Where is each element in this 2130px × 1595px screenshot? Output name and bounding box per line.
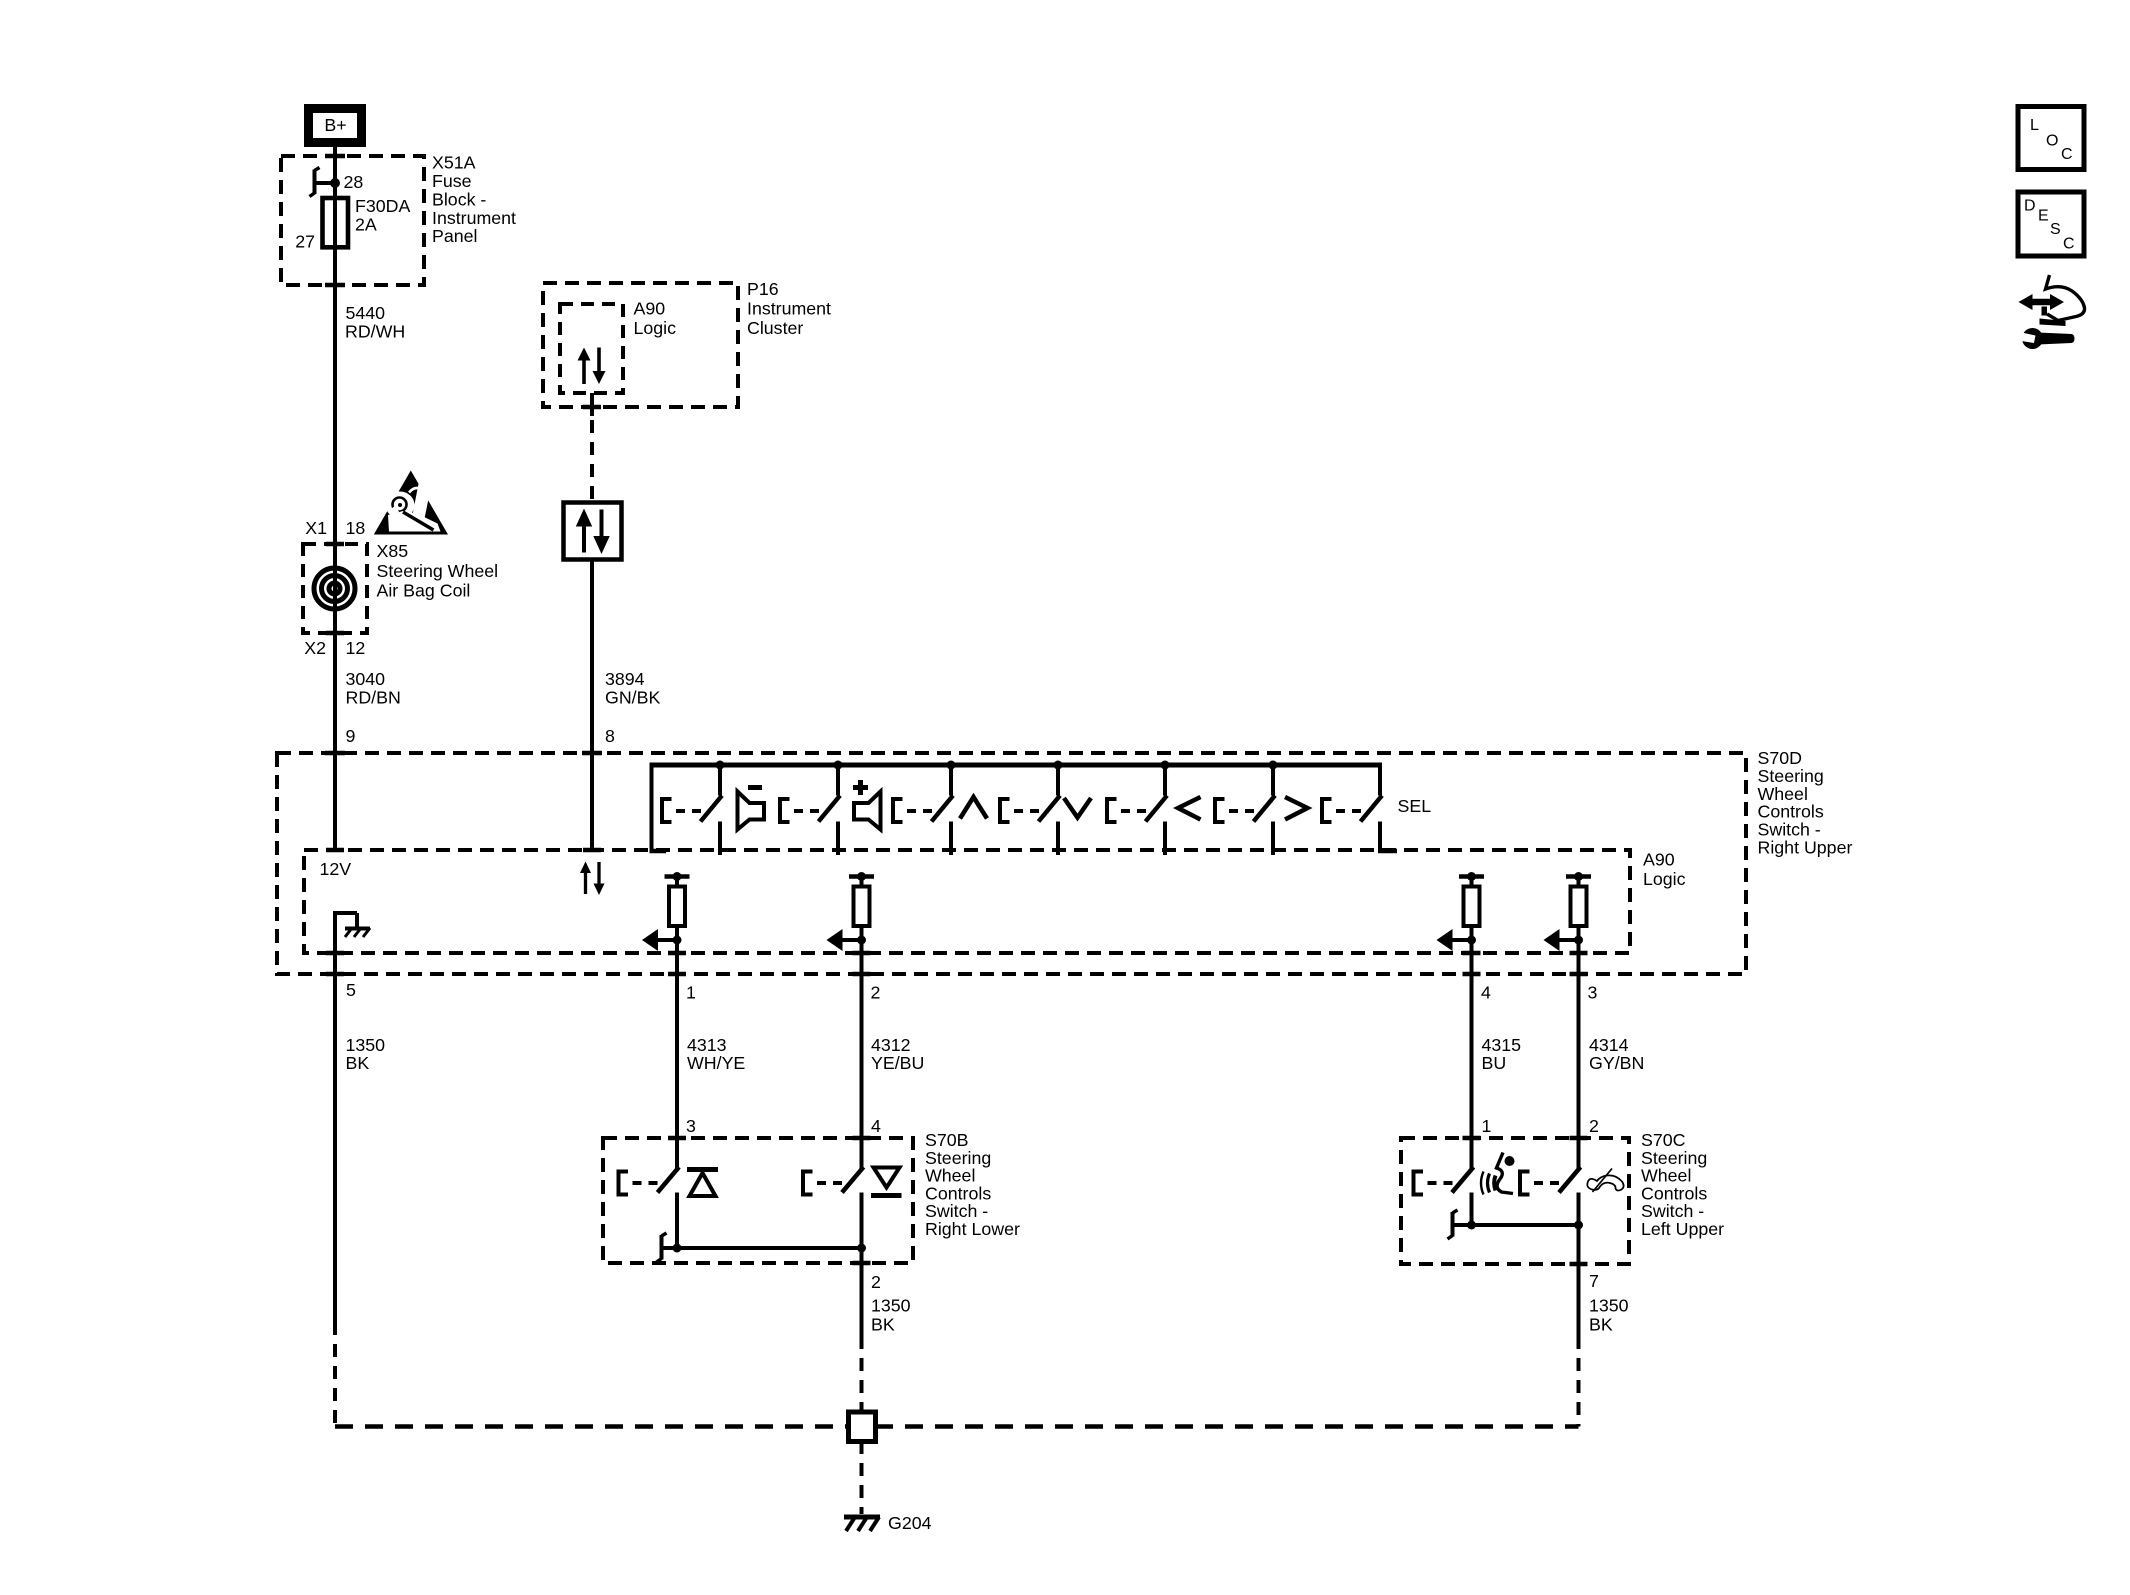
junction dot S70B right [857,1244,866,1253]
B+ terminal [309,109,362,143]
wire 5440 RD/WH label [345,303,405,341]
wire pin2 down to S70B [860,953,864,1138]
pin tick on P16 bottom [583,405,601,410]
pin tick 28 top [325,154,345,159]
pin 2 tick S70B bottom [853,1261,871,1266]
svg-text:C: C [2061,146,2073,163]
svg-text:8: 8 [605,726,615,746]
P16 instrument cluster dashed box [543,283,738,407]
S70B internal common wire [660,1246,862,1250]
svg-text:Steering: Steering [1758,766,1824,786]
pin 2 tick S70C top [1570,1136,1588,1141]
svg-text:12: 12 [346,638,366,658]
phone end icon [1587,1169,1623,1193]
wire 1350 BK label middle [871,1296,911,1335]
switch S70D SEL [1322,796,1382,823]
speaker icon right [854,792,881,830]
pin 4 tick at S70D bottom [1463,972,1481,977]
svg-text:A90: A90 [1643,850,1675,870]
wire 4312 YE/BU label [871,1035,924,1073]
node dot sw2 [834,761,843,770]
wire-end tick at A90 top pin8 [583,848,601,853]
ground distribution dashed bus [335,1424,1579,1429]
fuse F30DA [323,198,349,247]
wire 3894 down to S70D [590,560,594,850]
node dot sw1 [716,761,725,770]
svg-text:18: 18 [346,518,366,538]
svg-text:5440: 5440 [346,303,386,323]
pin tick 27 bottom [325,283,345,288]
A90 logic label right [1643,850,1686,890]
junction dot S70C left [1467,1221,1476,1230]
svg-text:B+: B+ [324,115,346,135]
speaker icon left [738,792,765,830]
wire pin1 down to S70B [675,953,679,1138]
svg-text:F30DA: F30DA [355,196,410,216]
svg-text:9: 9 [346,726,356,746]
svg-text:28: 28 [344,172,364,192]
wire pin5 down [333,974,337,1322]
svg-text:3: 3 [1588,983,1598,1003]
svg-text:Logic: Logic [1643,869,1686,889]
A90 logic inner dashed box [304,850,1630,953]
pullup resistor column 2 [827,872,875,953]
svg-text:O: O [2046,133,2058,150]
bus tap hook S70B [660,1235,664,1260]
S70D outer dashed box [277,753,1746,974]
switch S70D right [1215,765,1275,855]
svg-text:4312: 4312 [871,1035,911,1055]
pin 5 tick at S70D bottom [326,972,344,977]
voice recognition icon [1481,1153,1515,1195]
pin 1 tick at S70D bottom [668,972,686,977]
pin tick wire3 at A90 bottom [1570,951,1588,956]
svg-text:4: 4 [871,1116,881,1136]
wire 1350 BK label left [346,1035,386,1073]
pin tick wire4 at A90 bottom [1463,951,1481,956]
pin 3 tick at S70D bottom [1570,972,1588,977]
svg-text:C: C [2063,236,2075,253]
volume minus icon [748,785,762,790]
wire 4313 WH/YE label [687,1035,745,1073]
svg-text:X51A: X51A [432,153,476,173]
switch S70D volume-up [780,765,840,855]
internal chassis ground stub 12V [335,911,370,974]
svg-text:GY/BN: GY/BN [1589,1053,1644,1073]
splice box [849,1412,876,1442]
svg-text:Right Lower: Right Lower [925,1219,1020,1239]
pin tick 8 on S70D top [582,751,602,756]
pullup resistor column 4 [1544,872,1592,953]
svg-text:Left Upper: Left Upper [1641,1219,1724,1239]
S70D label [1758,748,1853,858]
svg-text:WH/YE: WH/YE [687,1053,745,1073]
svg-text:5: 5 [346,980,356,1000]
svg-text:YE/BU: YE/BU [871,1053,924,1073]
wire 3894 GN/BK label [605,669,660,707]
S70C label [1641,1130,1724,1239]
bus tap hook at node 28 [313,170,317,195]
wire 3040 RD/BN label [346,669,401,707]
wire pin2 out of S70B [860,1248,864,1336]
P16 label [747,279,831,338]
chevron left icon [1178,797,1201,820]
svg-text:27: 27 [295,232,315,252]
svg-text:X85: X85 [377,541,409,561]
svg-text:D: D [2024,198,2036,215]
dashed wire to splice [860,1336,864,1412]
svg-text:BK: BK [871,1315,895,1335]
junction dot S70B left [673,1244,682,1253]
up-down arrows in P16 A90 [578,348,606,385]
svg-text:2: 2 [1589,1116,1599,1136]
svg-text:Controls: Controls [1758,802,1824,822]
serial data box with up-down arrows [564,503,622,560]
svg-text:4: 4 [1481,983,1491,1003]
small up-down arrows at pin 8 [580,862,605,896]
svg-text:2A: 2A [355,214,377,234]
svg-text:Instrument: Instrument [747,298,831,318]
pin 1 tick S70C top [1463,1136,1481,1141]
node dot sw3 [947,761,956,770]
bus left bracket wire [650,763,654,852]
dashed wire to G204 [860,1441,864,1514]
pin 12 tick X85 bottom [326,631,344,636]
fuse block X51A dashed box [281,156,424,285]
bus tap hook S70C [1451,1212,1455,1237]
wire-end tick 12V at A90 top [326,848,344,853]
switch S70D left [1107,765,1167,855]
S70C internal common wire [1451,1223,1579,1227]
svg-text:A90: A90 [634,298,666,318]
svg-text:X2: X2 [304,638,326,658]
svg-text:1: 1 [686,983,696,1003]
node dot sw6 [1269,761,1278,770]
switch S70C voice [1414,1138,1474,1225]
pin tick wire2 at A90 bottom [853,951,871,956]
svg-text:Fuse: Fuse [432,171,472,191]
svg-text:1: 1 [1482,1116,1492,1136]
svg-text:RD/WH: RD/WH [345,321,405,341]
pin 18 tick X85 top [326,542,344,547]
pullup resistor column 1 [642,872,690,953]
service tool icon [2019,275,2085,349]
pin tick wire5 at A90 bottom [326,951,344,956]
pin tick 9 on S70D top [325,751,345,756]
pin 2 tick at S70D bottom [853,972,871,977]
svg-text:4313: 4313 [687,1035,727,1055]
svg-text:GN/BK: GN/BK [605,687,660,707]
S70C dashed box [1401,1138,1629,1264]
dashed wire P16 to serial box [590,420,594,502]
svg-text:BU: BU [1482,1053,1507,1073]
svg-text:Instrument: Instrument [432,208,516,228]
dashed wire to ground bus right [1577,1336,1581,1427]
pullup resistor column 3 [1437,872,1485,953]
svg-text:Cluster: Cluster [747,318,803,338]
bus right bracket wire [1378,763,1382,796]
wire pin4 down to S70C [1470,953,1474,1138]
svg-text:BK: BK [346,1053,370,1073]
svg-text:Right Upper: Right Upper [1758,838,1853,858]
svg-text:Air Bag Coil: Air Bag Coil [377,580,471,600]
svg-text:4315: 4315 [1482,1035,1522,1055]
S70B dashed box [603,1138,913,1263]
A90 logic dashed box in P16 [560,304,623,393]
svg-text:Steering Wheel: Steering Wheel [377,561,499,581]
X51A label [432,153,516,247]
svg-text:E: E [2038,208,2049,225]
S70B label [925,1130,1020,1239]
switch S70D seek-down [1000,765,1060,855]
pin 3 tick S70B top [668,1136,686,1141]
wire pin3 down to S70C [1577,953,1581,1138]
pin tick wire1 at A90 bottom [668,951,686,956]
svg-text:4314: 4314 [1589,1035,1629,1055]
node dot sw4 [1054,761,1063,770]
pin 7 tick S70C bottom [1570,1262,1588,1267]
wire 4314 GY/BN label [1589,1035,1644,1073]
pin 4 tick S70B top [853,1136,871,1141]
svg-text:3: 3 [686,1116,696,1136]
wire pin7 out of S70C [1577,1225,1581,1336]
svg-text:3040: 3040 [346,669,386,689]
dashed wire pin5 to ground bus [333,1322,337,1427]
wire through coil [333,633,337,851]
A90 logic label [634,298,677,338]
svg-text:X1: X1 [305,518,327,538]
svg-text:Switch -: Switch - [1758,820,1821,840]
svg-text:RD/BN: RD/BN [346,687,401,707]
chevron up icon [960,797,987,819]
coil X85 (clockspring) [314,568,355,609]
svg-text:BK: BK [1589,1315,1613,1335]
svg-text:2: 2 [871,983,881,1003]
wire 1350 BK label right [1589,1296,1629,1335]
switch S70B seek-up [619,1138,680,1248]
svg-text:S: S [2050,221,2061,238]
seek down icon [871,1168,902,1196]
svg-text:Panel: Panel [432,226,477,246]
wire B+ to fuse block and down to X85 [333,147,337,633]
svg-text:1350: 1350 [346,1035,386,1055]
ground G204 [844,1517,880,1531]
wire stub below P16 A90 [590,393,594,416]
chevron right icon [1285,797,1308,820]
svg-text:1350: 1350 [1589,1296,1629,1316]
svg-text:SEL: SEL [1398,796,1432,816]
switch S70C phone [1520,1138,1581,1225]
seek up icon [687,1170,718,1197]
wire 4315 BU label [1482,1035,1522,1073]
volume plus icon [853,780,868,795]
svg-text:1350: 1350 [871,1296,911,1316]
X85 steering wheel air bag coil dashed box [303,544,367,633]
svg-text:12V: 12V [320,859,352,879]
node 28 junction dot [330,178,340,188]
LOC box [2018,107,2084,170]
svg-text:2: 2 [871,1272,881,1292]
switch assembly bus [650,763,1383,768]
X85 label [377,541,499,600]
switch S70D seek-up [893,765,953,855]
switch S70B seek-down [803,1138,864,1248]
switch S70D volume-down [662,765,722,855]
svg-text:P16: P16 [747,279,779,299]
svg-text:7: 7 [1589,1271,1599,1291]
svg-text:L: L [2030,117,2039,134]
svg-text:Block -: Block - [432,189,486,209]
svg-text:Logic: Logic [634,318,677,338]
junction dot S70C right [1574,1221,1583,1230]
DESC box [2018,192,2084,256]
chevron down icon [1064,798,1091,818]
svg-text:S70D: S70D [1758,748,1802,768]
node dot sw5 [1161,761,1170,770]
svg-text:3894: 3894 [605,669,645,689]
airbag warning triangle [374,471,448,535]
svg-text:G204: G204 [888,1513,932,1533]
